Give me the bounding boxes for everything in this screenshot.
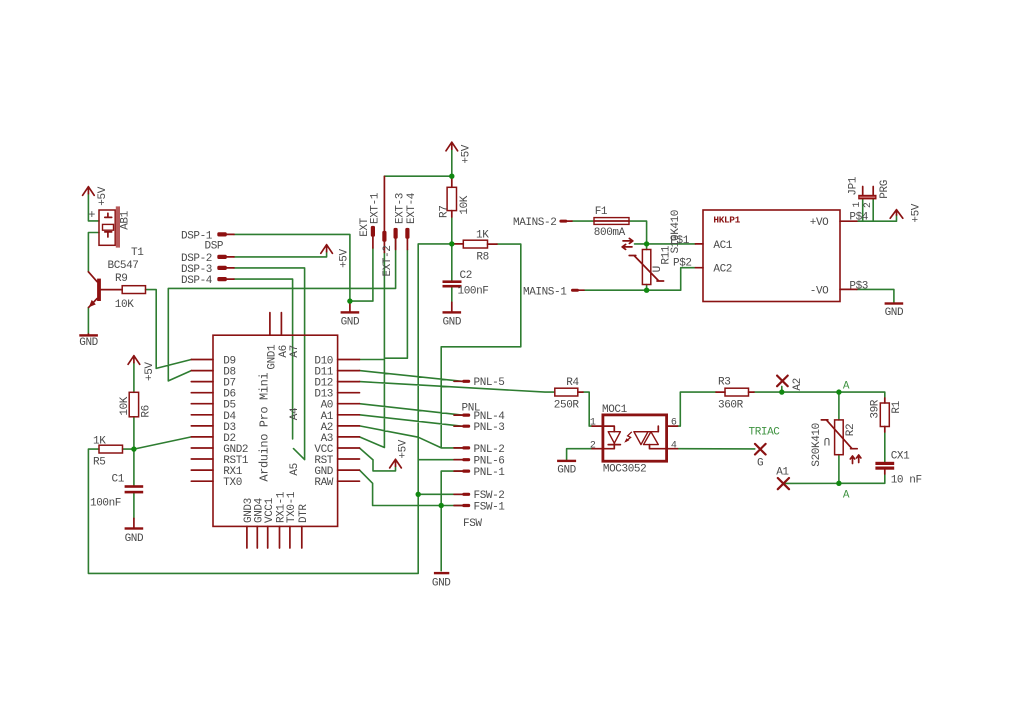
svg-text:P$4: P$4 <box>849 212 868 224</box>
svg-text:PNL-2: PNL-2 <box>474 444 505 456</box>
svg-text:100nF: 100nF <box>90 497 121 509</box>
svg-text:EXT-3: EXT-3 <box>395 193 407 224</box>
svg-text:A5: A5 <box>289 463 301 475</box>
svg-text:GND: GND <box>557 464 576 476</box>
svg-text:PRG: PRG <box>879 180 891 199</box>
svg-text:C1: C1 <box>112 473 125 485</box>
svg-text:MAINS-1: MAINS-1 <box>523 286 567 298</box>
svg-text:A7: A7 <box>289 345 301 357</box>
svg-text:TX0-1: TX0-1 <box>286 491 298 523</box>
svg-text:Arduino Pro Mini: Arduino Pro Mini <box>258 373 272 482</box>
svg-text:GND1: GND1 <box>267 344 279 370</box>
svg-text:JP1: JP1 <box>848 176 860 195</box>
svg-text:F1: F1 <box>595 206 608 218</box>
svg-text:R4: R4 <box>566 377 579 389</box>
svg-text:S20K410: S20K410 <box>811 423 823 466</box>
svg-text:MOC3052: MOC3052 <box>603 464 646 476</box>
svg-text:EXT-4: EXT-4 <box>406 192 418 224</box>
svg-text:P$3: P$3 <box>849 281 868 293</box>
svg-text:10K: 10K <box>115 299 134 311</box>
svg-text:GND: GND <box>341 317 360 329</box>
svg-text:1K: 1K <box>93 436 106 448</box>
svg-text:PNL-6: PNL-6 <box>474 456 505 468</box>
svg-text:GND: GND <box>79 337 98 349</box>
svg-text:4: 4 <box>671 441 677 452</box>
svg-text:100nF: 100nF <box>458 286 489 298</box>
svg-text:FSW-2: FSW-2 <box>474 490 505 502</box>
svg-text:R1: R1 <box>891 400 903 413</box>
svg-text:RAW: RAW <box>314 477 333 489</box>
svg-text:FSW: FSW <box>463 518 482 530</box>
svg-text:S10K410: S10K410 <box>670 210 682 253</box>
svg-text:-VO: -VO <box>810 285 829 297</box>
svg-text:DTR: DTR <box>298 504 310 523</box>
svg-text:GND: GND <box>125 533 144 545</box>
svg-text:A6: A6 <box>278 345 290 357</box>
svg-text:R3: R3 <box>718 377 730 389</box>
svg-text:AC1: AC1 <box>713 240 732 252</box>
svg-text:CX1: CX1 <box>891 451 910 463</box>
svg-text:A2: A2 <box>792 378 804 390</box>
svg-text:10K: 10K <box>459 195 471 214</box>
svg-text:R9: R9 <box>115 273 127 285</box>
svg-text:EXT-1: EXT-1 <box>370 192 382 224</box>
svg-text:TX0: TX0 <box>223 477 242 489</box>
svg-text:R2: R2 <box>845 424 857 436</box>
svg-text:G: G <box>757 457 763 469</box>
svg-text:DSP: DSP <box>205 241 224 253</box>
svg-text:A1: A1 <box>776 467 789 479</box>
svg-text:PNL-3: PNL-3 <box>474 422 505 434</box>
svg-text:39R: 39R <box>870 399 882 418</box>
svg-text:+5V: +5V <box>461 144 473 163</box>
svg-text:GND: GND <box>885 307 904 319</box>
svg-text:GND: GND <box>432 577 451 589</box>
svg-text:TRIAC: TRIAC <box>749 426 781 438</box>
svg-text:PNL-1: PNL-1 <box>474 467 506 479</box>
svg-text:+5V: +5V <box>144 362 156 381</box>
svg-text:VCC1: VCC1 <box>264 497 276 523</box>
svg-text:+5V: +5V <box>398 439 410 458</box>
svg-text:+: + <box>88 208 95 222</box>
svg-text:MAINS-2: MAINS-2 <box>513 217 556 229</box>
svg-text:10K: 10K <box>119 396 131 415</box>
svg-text:FSW-1: FSW-1 <box>474 501 506 513</box>
svg-text:EXT-2: EXT-2 <box>382 245 394 276</box>
svg-text:MOC1: MOC1 <box>602 404 628 416</box>
svg-text:+5V: +5V <box>338 248 350 267</box>
svg-text:R8: R8 <box>476 252 488 264</box>
svg-text:U: U <box>652 266 664 272</box>
svg-text:EXT: EXT <box>359 217 371 236</box>
svg-text:+5V: +5V <box>97 186 109 205</box>
svg-text:2: 2 <box>590 441 596 452</box>
svg-text:U: U <box>824 434 830 446</box>
svg-text:A4: A4 <box>289 407 301 420</box>
svg-text:2: 2 <box>863 202 874 208</box>
svg-text:10 nF: 10 nF <box>891 475 922 487</box>
svg-text:C2: C2 <box>460 270 472 282</box>
svg-text:800mA: 800mA <box>594 227 626 239</box>
svg-text:R6: R6 <box>141 405 153 417</box>
svg-text:P$1: P$1 <box>670 235 689 247</box>
svg-text:PNL: PNL <box>462 402 481 414</box>
svg-text:A: A <box>843 490 850 502</box>
svg-text:360R: 360R <box>718 399 744 411</box>
svg-text:+VO: +VO <box>810 217 829 229</box>
svg-text:BC547: BC547 <box>108 260 139 272</box>
svg-text:R5: R5 <box>93 456 105 468</box>
svg-text:250R: 250R <box>554 399 580 411</box>
svg-text:+5V: +5V <box>911 203 923 222</box>
svg-text:GND: GND <box>442 317 461 329</box>
svg-text:DSP-4: DSP-4 <box>181 275 213 287</box>
svg-text:P$2: P$2 <box>673 258 692 270</box>
svg-text:AB1: AB1 <box>119 210 131 229</box>
svg-text:A: A <box>843 381 850 393</box>
svg-text:AC2: AC2 <box>713 264 732 276</box>
svg-text:DSP-3: DSP-3 <box>181 264 212 276</box>
svg-text:1: 1 <box>852 202 863 208</box>
svg-text:T1: T1 <box>131 247 144 259</box>
svg-text:6: 6 <box>671 418 677 429</box>
svg-text:HKLP1: HKLP1 <box>713 215 740 226</box>
svg-text:R7: R7 <box>438 206 450 218</box>
svg-text:PNL-5: PNL-5 <box>474 377 505 389</box>
svg-text:1K: 1K <box>476 230 489 242</box>
svg-text:1: 1 <box>590 418 596 429</box>
